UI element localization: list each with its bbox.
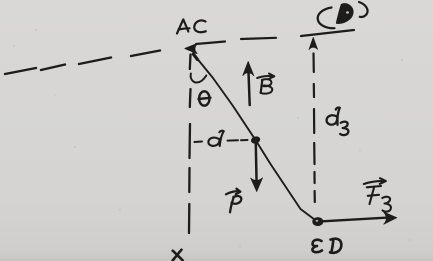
vector P arrow (down) [251, 144, 263, 192]
point E dot [312, 217, 323, 226]
label theta [199, 91, 211, 105]
label (D) top right [318, 2, 368, 28]
dashed horizon line (left of A) [5, 51, 160, 75]
vector B arrow [243, 62, 254, 106]
label A C [177, 20, 206, 34]
rod A to E (solid line) [193, 54, 315, 220]
angle arc at A [191, 74, 207, 83]
label d3 [327, 107, 349, 135]
label F3 vector [364, 178, 391, 211]
label B vector [257, 74, 274, 94]
pivot dot on rod [250, 135, 261, 145]
dashed d line to pivot dot [195, 140, 248, 142]
vertical dashed line d3 with top arrowhead [309, 38, 318, 203]
vector F3 arrow (right) [323, 212, 397, 224]
faint scan speckles [13, 29, 411, 247]
label P vector [226, 189, 241, 213]
vertical dashed line below A (x axis) [189, 55, 191, 234]
dashed horizon line (right of A) [196, 30, 354, 44]
point A (dot with left arrowhead on horizon) [185, 44, 198, 54]
label x at bottom [173, 250, 183, 261]
label E D at bottom [312, 239, 341, 253]
label d (middle) [208, 131, 223, 146]
